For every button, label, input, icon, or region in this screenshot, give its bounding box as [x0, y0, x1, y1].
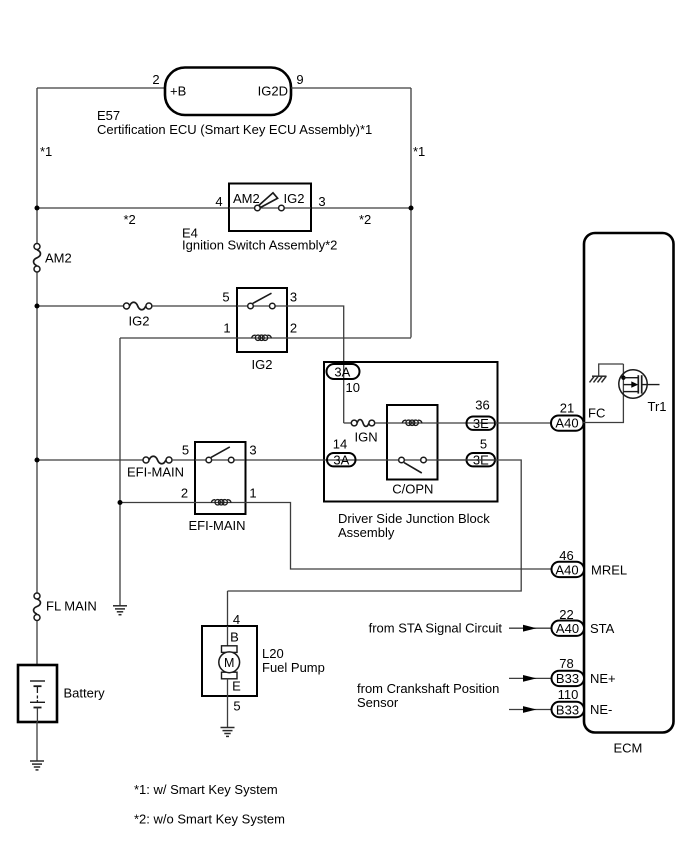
wire C/OPN coil to 3E upper — [438, 422, 496, 424]
wire E57 +B to left rail — [37, 87, 165, 89]
svg-text:5: 5 — [222, 290, 229, 305]
label *2 left — [124, 212, 136, 227]
wire 3E lower to fuel pump feed — [228, 460, 522, 591]
wire EFI-MAIN pin2 to ground rail — [120, 502, 195, 504]
wire C/OPN coil row — [387, 422, 438, 424]
wire inside ignition switch — [229, 207, 311, 209]
pin 5 label — [222, 290, 229, 305]
relay C/OPN box — [387, 405, 438, 480]
svg-text:IG2: IG2 — [284, 191, 305, 206]
svg-text:IG2D: IG2D — [258, 84, 288, 99]
wire IG2 relay pin2 to right rail — [287, 337, 411, 339]
EFI-MAIN contacts — [206, 457, 234, 463]
pin 4 label — [215, 194, 222, 209]
svg-text:ECM: ECM — [614, 741, 643, 756]
svg-text:EFI-MAIN: EFI-MAIN — [189, 518, 246, 533]
label FC — [588, 406, 605, 421]
svg-text:2: 2 — [181, 486, 188, 501]
svg-text:Certification ECU (Smart Key E: Certification ECU (Smart Key ECU Assembl… — [97, 122, 372, 137]
pin 14 label — [333, 437, 347, 452]
wire motor to pump bottom — [227, 679, 229, 696]
wire Tr1 gate loop — [599, 364, 624, 376]
svg-text:Battery: Battery — [64, 686, 106, 701]
pin 2 label — [152, 72, 159, 87]
svg-text:AM2: AM2 — [233, 191, 260, 206]
wire 3A to IGN fuse — [344, 422, 352, 424]
wire battery to ground — [36, 722, 38, 761]
svg-text:NE-: NE- — [590, 702, 612, 717]
pin 3 label — [249, 443, 256, 458]
svg-text:A40: A40 — [555, 562, 578, 577]
EFI-MAIN coil — [211, 500, 231, 505]
pin +B label — [170, 84, 186, 99]
wire left rail (top segment down to AM2 fuse) — [36, 88, 38, 244]
pin 1 label — [223, 321, 230, 336]
node right rail / pin3 — [409, 206, 414, 211]
svg-text:IG2: IG2 — [129, 314, 150, 329]
svg-text:36: 36 — [475, 398, 489, 413]
connector B33 NE+ — [552, 671, 585, 687]
wire left rail to ignition switch pin 4 — [37, 207, 229, 209]
pin 3 label — [290, 290, 297, 305]
fuel pump box L20 — [202, 626, 257, 696]
svg-text:Ignition Switch Assembly*2: Ignition Switch Assembly*2 — [182, 238, 337, 253]
connector 3A lower — [327, 453, 356, 468]
pin 1 label — [249, 486, 256, 501]
pin 3 label — [318, 194, 325, 209]
ground below battery — [30, 761, 44, 770]
pin 2 label — [290, 321, 297, 336]
node left rail / IG2 row — [35, 304, 40, 309]
label Tr1 — [648, 399, 667, 414]
connector A40 FC — [551, 416, 584, 431]
wire C/OPN switch to 3E lower — [438, 459, 496, 461]
svg-text:Tr1: Tr1 — [648, 399, 667, 414]
wire E57 IG2D to right rail — [291, 87, 411, 89]
svg-text:+B: +B — [170, 84, 186, 99]
C/OPN coil — [402, 420, 422, 425]
node left rail / pin4 — [35, 206, 40, 211]
label IG2 relay — [252, 357, 273, 372]
fuse EFI-MAIN — [143, 456, 172, 464]
ignition switch E4 box — [229, 184, 311, 232]
wire NE+ arrow — [509, 675, 584, 682]
wire EFI-MAIN coil row — [195, 502, 245, 504]
pin 5 label — [480, 437, 487, 452]
label Fuel Pump — [262, 660, 325, 675]
note *1 — [134, 782, 278, 797]
svg-text:14: 14 — [333, 437, 347, 452]
chassis ground in ECM — [590, 376, 607, 382]
wire STA arrow — [509, 625, 584, 632]
wire IG2 relay pin1 to ground rail — [120, 337, 237, 339]
ground below EFI-MAIN — [113, 606, 127, 615]
svg-text:1: 1 — [249, 486, 256, 501]
svg-text:L20: L20 — [262, 646, 284, 661]
pin 78 label — [559, 656, 573, 671]
svg-text:M: M — [224, 656, 234, 670]
wire left rail (AM2 fuse to FL MAIN fuse) — [36, 272, 38, 593]
svg-text:A40: A40 — [556, 621, 579, 636]
wire fuel pump feed down — [227, 591, 229, 626]
svg-text:22: 22 — [559, 607, 573, 622]
relay IG2 box — [237, 288, 287, 352]
wire FC from 3E upper to A40 — [495, 422, 584, 424]
pin 9 label — [296, 72, 303, 87]
svg-text:21: 21 — [560, 401, 574, 416]
label STA — [590, 621, 615, 636]
svg-text:Assembly: Assembly — [338, 525, 395, 540]
pin 46 label — [559, 548, 573, 563]
label Sensor — [357, 695, 399, 710]
svg-text:110: 110 — [558, 687, 579, 702]
svg-text:B: B — [230, 630, 239, 645]
wire IG2 relay pin3 to 3A — [287, 306, 344, 423]
svg-text:3: 3 — [318, 194, 325, 209]
svg-text:9: 9 — [296, 72, 303, 87]
label NE+ — [590, 671, 616, 686]
label C/OPN — [392, 482, 433, 497]
wire EFI-MAIN relay pin3 to 3A lower — [245, 459, 387, 461]
label E4 — [182, 226, 198, 241]
label *2 right — [359, 212, 371, 227]
wire ignition switch pin 3 to right rail — [311, 207, 411, 209]
label AM2 fuse — [45, 251, 72, 266]
label L20 — [262, 646, 284, 661]
label MREL — [591, 563, 627, 578]
battery box — [18, 665, 57, 722]
svg-text:E57: E57 — [97, 108, 120, 123]
connector 3A top — [327, 364, 360, 380]
wire EFI-MAIN switch row — [195, 459, 245, 461]
label *1 right — [413, 144, 425, 159]
svg-text:from STA Signal Circuit: from STA Signal Circuit — [369, 621, 503, 636]
wire left rail to IG2 fuse — [37, 305, 123, 307]
label Certification ECU — [97, 122, 372, 137]
ECU E57 — [165, 68, 291, 116]
wire IG2 relay coil row — [237, 337, 287, 339]
wire pump pin4 to motor — [227, 626, 229, 646]
pin 2 label — [181, 486, 188, 501]
IG2 relay coil — [252, 335, 272, 340]
wire right rail — [410, 88, 412, 338]
pin 5 label — [233, 699, 240, 714]
pin 4 label — [233, 612, 240, 627]
svg-text:EFI-MAIN: EFI-MAIN — [127, 465, 184, 480]
wire EFI-MAIN pin1 to MREL — [245, 503, 551, 570]
label IGN — [355, 430, 378, 445]
svg-text:*1: w/ Smart Key System: *1: w/ Smart Key System — [134, 782, 278, 797]
svg-text:1: 1 — [223, 321, 230, 336]
fuse IG2 — [124, 302, 152, 310]
connector A40 STA — [552, 621, 585, 637]
fuse AM2 — [34, 244, 41, 273]
pin 36 label — [475, 398, 489, 413]
ground below fuel pump — [221, 728, 235, 737]
svg-text:Sensor: Sensor — [357, 695, 399, 710]
wire NE- arrow — [509, 706, 584, 713]
svg-text:3A: 3A — [334, 365, 350, 380]
label Battery — [64, 686, 106, 701]
label FL MAIN — [46, 599, 97, 614]
svg-text:C/OPN: C/OPN — [392, 482, 433, 497]
svg-text:NE+: NE+ — [590, 671, 616, 686]
fuse IGN — [351, 420, 374, 427]
node Tr1 drain junction — [621, 376, 625, 380]
svg-text:Driver Side Junction Block: Driver Side Junction Block — [338, 511, 490, 526]
svg-text:*1: *1 — [40, 144, 52, 159]
C/OPN lever — [404, 463, 422, 473]
svg-text:MREL: MREL — [591, 563, 627, 578]
IG2 relay contacts — [248, 303, 275, 309]
wire pump to ground — [227, 696, 229, 728]
wire EFI-MAIN fuse to relay pin 5 — [172, 459, 195, 461]
svg-text:3: 3 — [249, 443, 256, 458]
ignition switch contacts — [255, 205, 285, 211]
svg-text:10: 10 — [346, 380, 360, 395]
svg-text:Fuel Pump: Fuel Pump — [262, 660, 325, 675]
connector B33 NE- — [552, 702, 585, 718]
svg-text:78: 78 — [559, 656, 573, 671]
wire IG2 relay switch row — [237, 305, 287, 307]
svg-text:*2: *2 — [359, 212, 371, 227]
ECM box — [584, 233, 674, 733]
connector 3E upper — [467, 416, 496, 431]
svg-text:5: 5 — [182, 443, 189, 458]
pin 21 label — [560, 401, 574, 416]
label Ignition Switch Assembly*2 — [182, 238, 337, 253]
wire IGN fuse to C/OPN coil — [375, 422, 387, 424]
svg-text:IGN: IGN — [355, 430, 378, 445]
svg-text:FL MAIN: FL MAIN — [46, 599, 97, 614]
pin 10 label — [346, 380, 360, 395]
pin 110 label — [558, 687, 579, 702]
note *2 — [134, 812, 285, 827]
label NE- — [590, 702, 612, 717]
label IG2 fuse — [129, 314, 150, 329]
wire left rail to EFI-MAIN fuse — [37, 459, 143, 461]
svg-text:A40: A40 — [555, 416, 578, 431]
label IG2 inside switch — [284, 191, 305, 206]
wire ground rail x120 — [119, 338, 121, 606]
pin 5 label — [182, 443, 189, 458]
svg-text:3: 3 — [290, 290, 297, 305]
svg-text:46: 46 — [559, 548, 573, 563]
transistor Tr1 — [619, 370, 660, 398]
label EFI-MAIN relay — [189, 518, 246, 533]
IG2 relay lever — [253, 293, 272, 303]
node ground rail / pin2 — [118, 500, 123, 505]
label from STA Signal Circuit — [369, 621, 503, 636]
label AM2 inside switch — [233, 191, 260, 206]
pin IG2D label — [258, 84, 288, 99]
connector A40 MREL — [552, 562, 585, 578]
pin 22 label — [559, 607, 573, 622]
relay EFI-MAIN box — [195, 442, 246, 514]
pin B label — [230, 630, 239, 645]
label Assembly — [338, 525, 395, 540]
wire left rail (FL MAIN fuse to battery) — [36, 621, 38, 666]
connector 3E lower — [467, 453, 496, 468]
label ECM — [614, 741, 643, 756]
label from Crankshaft Position — [357, 681, 499, 696]
svg-text:AM2: AM2 — [45, 251, 72, 266]
junction block box — [324, 362, 498, 502]
svg-text:2: 2 — [290, 321, 297, 336]
wire C/OPN switch row — [387, 459, 438, 461]
pin E label — [232, 679, 241, 694]
EFI-MAIN lever — [211, 447, 230, 458]
label EFI-MAIN fuse — [127, 465, 184, 480]
wire FC to Tr1 — [583, 364, 623, 423]
node left rail / EFI row — [35, 458, 40, 463]
motor M — [219, 646, 240, 679]
svg-text:FC: FC — [588, 406, 605, 421]
svg-text:4: 4 — [215, 194, 222, 209]
svg-text:*2: *2 — [124, 212, 136, 227]
label Driver Side Junction Block — [338, 511, 490, 526]
wire IG2 fuse to relay pin 5 — [152, 305, 237, 307]
svg-text:5: 5 — [233, 699, 240, 714]
svg-text:5: 5 — [480, 437, 487, 452]
svg-text:B33: B33 — [556, 702, 579, 717]
svg-text:STA: STA — [590, 621, 615, 636]
svg-text:from Crankshaft Position: from Crankshaft Position — [357, 681, 499, 696]
svg-text:3A: 3A — [333, 453, 349, 468]
label *1 left — [40, 144, 52, 159]
svg-text:B33: B33 — [556, 671, 579, 686]
battery symbol — [30, 681, 45, 722]
svg-text:E: E — [232, 679, 241, 694]
svg-text:2: 2 — [152, 72, 159, 87]
label E57 — [97, 108, 120, 123]
svg-text:*2: w/o Smart Key System: *2: w/o Smart Key System — [134, 812, 285, 827]
svg-text:*1: *1 — [413, 144, 425, 159]
ignition switch lever — [259, 193, 278, 208]
svg-text:3E: 3E — [473, 416, 489, 431]
svg-text:IG2: IG2 — [252, 357, 273, 372]
svg-text:4: 4 — [233, 612, 240, 627]
fuse FL MAIN — [34, 593, 41, 621]
C/OPN contacts — [399, 457, 427, 463]
